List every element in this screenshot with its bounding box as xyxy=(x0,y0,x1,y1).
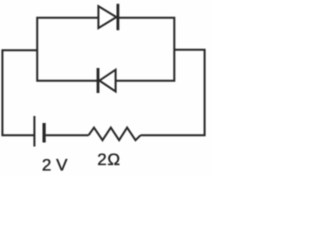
battery long thin plate (negative-left) xyxy=(33,116,35,147)
svg-text:2: 2 xyxy=(97,150,106,169)
resistor R 2-ohm zigzag xyxy=(89,128,141,141)
wire: left inner branch frame (top branch to node A to bottom branch) xyxy=(37,18,98,81)
diode D1 cathode bar xyxy=(117,4,120,30)
diode D2 cathode bar (left) xyxy=(97,68,100,93)
diode D1 triangle (anode left, pointing right) xyxy=(98,6,116,28)
wire: right inner branch frame (top branch to node B to bottom branch) xyxy=(116,18,175,81)
wire: battery positive to resistor left xyxy=(46,134,89,136)
diode D2 triangle (pointing left) xyxy=(99,70,115,92)
svg-text:Ω: Ω xyxy=(107,150,120,169)
wire: right outer loop (node B stub, right side down to resistor) xyxy=(141,50,205,136)
wire: left outer loop (node A stub, left side down to battery) xyxy=(2,50,37,135)
svg-text:2 V: 2 V xyxy=(42,156,68,175)
battery short thick plate xyxy=(42,123,45,143)
